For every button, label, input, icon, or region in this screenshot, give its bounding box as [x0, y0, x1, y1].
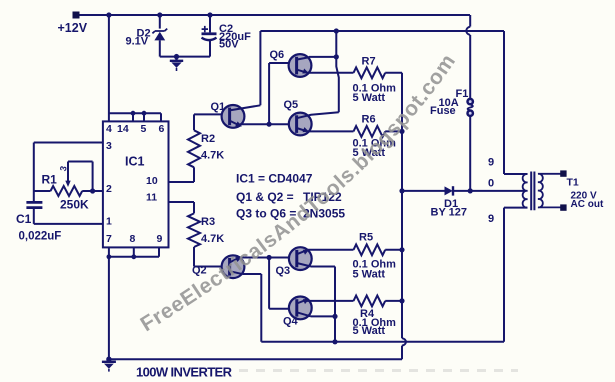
- wire Q2 emitter to Q3/Q4 bases: [240, 255, 297, 309]
- svg-text:50V: 50V: [219, 38, 239, 50]
- wire emitter common vertical: [401, 73, 403, 338]
- svg-text:Q5: Q5: [284, 99, 299, 111]
- resistor R7 0.1 Ohm: [353, 56, 403, 105]
- resistor R2 4.7K: [188, 130, 224, 167]
- svg-text:R7: R7: [362, 56, 376, 68]
- svg-text:Fuse: Fuse: [430, 105, 456, 117]
- +12V terminal: [58, 12, 88, 36]
- svg-text:Q3: Q3: [276, 265, 291, 277]
- transistor Q1: [211, 101, 261, 128]
- op IC1 CD4047: [103, 121, 169, 247]
- svg-text:AC out: AC out: [571, 199, 604, 210]
- wire Q2 collector drop: [243, 274, 261, 342]
- svg-text:T1: T1: [567, 177, 579, 189]
- wire primary bottom drop: [504, 208, 527, 342]
- wire D2-C2 bottom: [160, 56, 210, 58]
- wire pin3 loop: [34, 143, 103, 203]
- node rail-IC: [106, 12, 111, 17]
- wire Q6 collector: [309, 54, 339, 59]
- wire IC supply drop: [108, 15, 110, 121]
- wire hop over collector rail: [402, 338, 406, 359]
- svg-text:R5: R5: [359, 232, 373, 244]
- diode D1 BY127: [399, 186, 524, 218]
- wire collector rail (top): [260, 30, 504, 32]
- svg-text:Q4: Q4: [283, 316, 299, 328]
- svg-text:9: 9: [157, 233, 163, 245]
- capacitor C2: [202, 15, 252, 57]
- svg-text:4: 4: [106, 123, 112, 135]
- resistor R5 0.1 Ohm: [353, 232, 405, 281]
- transistor Q3: [276, 247, 312, 277]
- wire Q4 collector: [311, 315, 335, 317]
- node rail2-Q5Q6: [334, 28, 339, 33]
- svg-text:8: 8: [130, 233, 136, 245]
- wire R3 to Q2 base: [194, 247, 229, 267]
- svg-text:C1: C1: [16, 212, 32, 226]
- capacitor C1: [16, 202, 61, 242]
- svg-text:IC1 = CD4047: IC1 = CD4047: [236, 172, 313, 186]
- wire Q5/Q6 collector riser: [336, 31, 339, 112]
- wire C1 to pin1: [34, 223, 103, 225]
- svg-text:9: 9: [488, 213, 494, 225]
- node rail-D2: [157, 12, 162, 17]
- svg-text:10: 10: [146, 175, 158, 187]
- wire Q3 emitter to R5: [307, 249, 354, 251]
- ground (D2/C2): [170, 54, 183, 71]
- wire Q5 emitter to R6: [307, 130, 354, 132]
- svg-text:1: 1: [106, 216, 112, 228]
- svg-text:R3: R3: [201, 216, 215, 228]
- svg-text:Q1 & Q2 =: Q1 & Q2 =: [236, 190, 294, 204]
- wire Q3/Q4 collector drop: [311, 267, 338, 345]
- svg-text:BY 127: BY 127: [431, 206, 468, 218]
- svg-text:250K: 250K: [60, 198, 89, 212]
- svg-text:14: 14: [117, 123, 129, 135]
- wire bottom collector rail: [261, 341, 504, 343]
- wire pin11 to R3: [169, 202, 195, 213]
- wire bottom ground rail: [109, 358, 402, 360]
- transistor Q4: [283, 297, 312, 328]
- svg-text:11: 11: [146, 192, 157, 204]
- svg-text:5 Watt: 5 Watt: [353, 92, 386, 104]
- ground (main): [102, 357, 116, 372]
- fuse F1 10A: [430, 15, 473, 191]
- svg-text:+12V: +12V: [58, 21, 88, 35]
- svg-text:R2: R2: [201, 133, 215, 145]
- resistor R6 0.1 Ohm: [353, 114, 405, 160]
- wire rail2 to primary top: [504, 31, 528, 174]
- svg-text:R6: R6: [362, 114, 376, 126]
- zener D2: [126, 15, 168, 57]
- svg-text:7: 7: [106, 233, 112, 245]
- wire Q1 collector riser: [259, 31, 261, 105]
- svg-text:4.7K: 4.7K: [201, 150, 224, 162]
- svg-text:0: 0: [488, 178, 494, 190]
- svg-text:5 Watt: 5 Watt: [353, 269, 386, 281]
- wire pin10 to R2: [169, 167, 195, 182]
- wire Q1 emitter to Q5/Q6 bases: [240, 63, 297, 127]
- svg-text:5 Watt: 5 Watt: [353, 325, 386, 337]
- wire top +12V rail: [80, 14, 471, 16]
- svg-text:6: 6: [159, 123, 165, 135]
- svg-text:3: 3: [106, 140, 112, 152]
- wire IC bottom pins 7 8 9: [107, 247, 160, 259]
- wire Q4 emitter to R4: [307, 300, 354, 302]
- potentiometer R1 250K: [34, 162, 103, 212]
- transistor Q6: [270, 49, 312, 77]
- svg-text:100W INVERTER: 100W INVERTER: [136, 365, 233, 380]
- svg-text:4.7K: 4.7K: [201, 233, 224, 245]
- transistor Q2: [192, 255, 244, 278]
- svg-text:2: 2: [106, 183, 112, 195]
- svg-text:Q1: Q1: [211, 101, 226, 113]
- svg-text:5: 5: [141, 123, 147, 135]
- svg-text:9.1V: 9.1V: [126, 36, 149, 48]
- resistor R4 0.1 Ohm: [353, 296, 405, 338]
- svg-text:0,022uF: 0,022uF: [19, 231, 62, 243]
- transformer T1: [488, 157, 604, 226]
- note IC1 = CD4047: [236, 172, 345, 221]
- svg-text:9: 9: [488, 157, 494, 169]
- wire Q6 emitter to R7: [307, 72, 354, 74]
- wire IC ground drop: [108, 257, 110, 359]
- transistor Q5: [284, 99, 339, 135]
- svg-text:IC1: IC1: [125, 155, 145, 169]
- wire R2 to Q1 base: [194, 114, 229, 130]
- svg-text:R1: R1: [42, 173, 58, 187]
- resistor R3 4.7K: [188, 213, 224, 247]
- node rail-C2: [207, 12, 212, 17]
- wire IC top pin distribution: [109, 111, 161, 122]
- svg-text:Q6: Q6: [270, 49, 285, 61]
- watermark bottom dashes: [239, 369, 518, 372]
